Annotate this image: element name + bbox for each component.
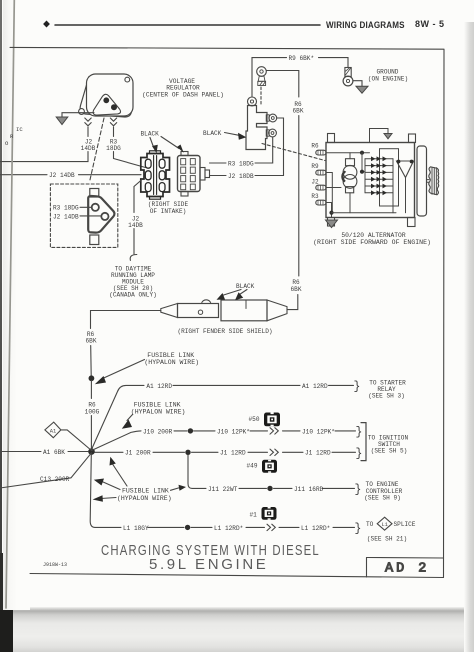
svg-text:GROUND: GROUND <box>377 69 399 76</box>
dashed attachment eyelet to block <box>260 87 262 104</box>
grommet icon #1 <box>250 507 277 520</box>
connector face view triangle with terminals <box>88 189 114 245</box>
wire J2 18DB connector to stud block <box>210 118 284 176</box>
internal bus from R6 pin <box>326 152 370 154</box>
svg-text:(CENTER OF DASH PANEL): (CENTER OF DASH PANEL) <box>142 91 224 98</box>
label (SEE SH 21) <box>367 536 407 543</box>
svg-text:J2 18DB: J2 18DB <box>228 173 254 180</box>
black connector C1 (right side of intake) <box>141 151 170 199</box>
svg-text:(SEE SH 21): (SEE SH 21) <box>367 536 407 543</box>
arrow fusible link to vertical (upper) <box>94 479 120 490</box>
label J2 14DB (regulator pin) <box>81 139 96 153</box>
svg-text:J2: J2 <box>311 179 319 186</box>
wire J2 14DB from page edge to connector <box>0 174 141 176</box>
wire R6 6BK from left cylinder <box>91 311 161 329</box>
svg-text:#1: #1 <box>250 512 258 519</box>
svg-text:BLACK: BLACK <box>141 131 160 138</box>
wire J11 row <box>239 487 355 489</box>
voltage regulator triangle connector <box>93 94 120 115</box>
wire J1 200R <box>95 451 356 453</box>
svg-text:R6: R6 <box>292 279 300 286</box>
dashed box around connector face view <box>50 184 117 247</box>
svg-text:R6: R6 <box>311 142 319 149</box>
label GROUND (ON ENGINE) <box>368 69 408 83</box>
svg-text:(SEE SH 3): (SEE SH 3) <box>368 393 405 400</box>
rectifier diode bridge <box>365 156 393 212</box>
rotor field winding <box>341 153 357 213</box>
svg-text:6BK: 6BK <box>291 286 302 293</box>
leader lines to face terminals <box>80 207 101 216</box>
junction dot <box>360 170 364 174</box>
label C13 200R <box>40 476 70 483</box>
svg-text:(ON ENGINE): (ON ENGINE) <box>368 76 408 83</box>
label 50/120 ALTERNATOR <box>313 232 431 246</box>
right page-edge shading <box>464 22 474 652</box>
svg-text:R3 18DG: R3 18DG <box>53 205 79 212</box>
label R3 18DG (regulator pin) <box>106 139 121 153</box>
connector end curl J10 <box>356 426 363 439</box>
svg-text:A1 12RD: A1 12RD <box>146 383 172 390</box>
internal wire to field <box>362 153 365 172</box>
svg-text:(RIGHT FENDER SIDE SHIELD): (RIGHT FENDER SIDE SHIELD) <box>177 328 272 335</box>
ring terminal upper on block <box>248 97 257 106</box>
labels J1 <box>125 450 331 457</box>
header: WIRING DIAGRAMS 8W - 5 <box>326 19 405 30</box>
label FUSIBLE LINK (middle) <box>131 401 186 415</box>
wire A1 12RD branch <box>92 385 354 449</box>
svg-text:BLACK: BLACK <box>203 130 222 137</box>
label R6 6BK (left column) <box>86 331 97 345</box>
label A1 12RD (left) <box>146 383 172 390</box>
wire junction down to L1 row <box>90 455 121 528</box>
wire R6 6BK from eyelet down <box>266 71 298 310</box>
wire R9 6BK to ground <box>252 58 348 97</box>
ground above alternator <box>384 134 392 139</box>
star junction node <box>88 448 95 455</box>
inline connector >> L1 <box>267 524 275 530</box>
grommet icon #49 <box>247 460 278 473</box>
ground stud on engine <box>343 68 353 86</box>
inline connector >> J1 <box>270 449 278 455</box>
fusible link cylinder right (fender shield) <box>221 300 287 321</box>
connector end curl J1 <box>356 448 363 461</box>
label J2 14DB (horizontal wire) <box>49 172 75 179</box>
wire from regulator to ground <box>62 113 94 118</box>
alternator pin R9 <box>316 170 326 175</box>
label BLACK for fender links <box>236 283 255 290</box>
internal wire from R3 pin <box>326 203 332 218</box>
svg-text:SPLICE: SPLICE <box>394 521 416 528</box>
ground below alternator <box>326 220 338 228</box>
internal wire from R9 pin <box>326 173 332 213</box>
left page bleed text fragments <box>5 126 23 147</box>
svg-text:}: } <box>354 381 361 394</box>
arrow BLACK to stud block <box>225 133 247 140</box>
svg-text:FUSIBLE LINK: FUSIBLE LINK <box>134 401 181 408</box>
wire to DRL module with end hook <box>130 229 137 261</box>
label A1 12RD (right) <box>302 383 328 390</box>
fusible link cylinder left (fender shield) <box>161 300 219 318</box>
svg-text:(RIGHT SIDE FORWARD OF ENGINE): (RIGHT SIDE FORWARD OF ENGINE) <box>313 239 431 246</box>
splice dot J11 <box>267 486 272 491</box>
label R6 6BK (lower) <box>291 279 302 293</box>
drawing number J918W-13 <box>43 562 67 568</box>
title block AD 2 box <box>367 558 444 578</box>
junction dot <box>360 151 364 155</box>
label (RIGHT FENDER SIDE SHIELD) <box>177 328 272 335</box>
svg-text:TO: TO <box>366 521 374 528</box>
svg-text:L1 12RD*: L1 12RD* <box>214 525 243 532</box>
shaft <box>427 180 430 183</box>
ground (on engine) <box>356 86 368 93</box>
svg-text:J2 14DB: J2 14DB <box>49 172 75 179</box>
svg-text:J1 12RD: J1 12RD <box>220 450 246 457</box>
connector end curl J11 <box>355 484 362 497</box>
label J2 18DB <box>228 173 254 180</box>
wire J10 200R <box>92 431 356 451</box>
label FUSIBLE LINK (upper) <box>144 352 199 366</box>
labels L1 <box>123 525 330 532</box>
svg-text:(CANADA ONLY): (CANADA ONLY) <box>109 291 157 298</box>
label R6 100G <box>85 402 100 416</box>
svg-text:AD 2: AD 2 <box>385 562 429 577</box>
label BLACK for connectors <box>141 131 160 138</box>
alternator pin R3 <box>316 200 326 205</box>
wire J1 branch down to J11 <box>188 455 206 488</box>
ring terminal right lower <box>266 129 276 137</box>
diagram border box bottom <box>30 574 444 578</box>
svg-text:A1 12RD: A1 12RD <box>302 383 328 390</box>
splice dot R6 <box>89 375 95 381</box>
wire R3 to connector <box>114 152 146 168</box>
wire-end chevrons pin J2 <box>85 118 91 126</box>
svg-text:#49: #49 <box>247 463 258 470</box>
svg-text:100G: 100G <box>85 408 100 415</box>
arrow to right cylinder <box>235 290 247 301</box>
wire A1 6BK from page edge <box>0 451 88 453</box>
svg-text:L1: L1 <box>382 522 388 528</box>
svg-text:(SEE SH 9): (SEE SH 9) <box>364 494 401 501</box>
wire R6 100G to star junction <box>90 381 92 450</box>
eyelet with stud to R9 wire <box>257 67 267 86</box>
labels J11 <box>208 486 324 493</box>
svg-text:#50: #50 <box>249 416 260 423</box>
svg-text:(HYPALON WIRE): (HYPALON WIRE) <box>144 359 199 366</box>
wire C13 200R <box>0 453 92 488</box>
svg-text:A1: A1 <box>50 429 56 435</box>
wire diamond to junction <box>61 430 92 451</box>
svg-text:R9: R9 <box>311 163 319 170</box>
stud junction block body <box>246 106 267 150</box>
label R3 18DG <box>228 160 254 167</box>
splice dot J1 <box>185 450 190 455</box>
internal regulator triangle <box>397 160 414 213</box>
arrow fusible link to J11 corner <box>171 485 187 491</box>
svg-text:}: } <box>356 448 363 461</box>
svg-text:O: O <box>5 140 9 147</box>
svg-text:IC: IC <box>16 126 23 133</box>
svg-text:(HYPALON WIRE): (HYPALON WIRE) <box>131 408 186 415</box>
svg-text:}: } <box>355 523 362 536</box>
label FUSIBLE LINK (lower) <box>117 488 172 502</box>
svg-text:J10 12PK*: J10 12PK* <box>217 428 250 435</box>
wire J2 14DB from regulator <box>87 127 89 137</box>
label TO IGNITION SWITCH <box>368 435 409 455</box>
junction dot <box>329 211 333 215</box>
svg-text:J10 200R: J10 200R <box>143 428 173 435</box>
svg-text:J918W-13: J918W-13 <box>43 562 67 568</box>
alternator front housing <box>417 146 427 216</box>
label A1 6BK <box>43 449 65 456</box>
alternator U2 case <box>326 134 416 227</box>
arrow fusible link to splice <box>95 360 145 385</box>
wire L1 row <box>148 526 355 528</box>
group bracket to ignition switch <box>361 423 366 461</box>
wire alternator top to ground <box>370 129 389 143</box>
svg-text:L1 12RD*: L1 12RD* <box>301 525 330 532</box>
svg-text:}: } <box>355 484 362 497</box>
pin label J2 <box>311 179 319 186</box>
internal wire from J2 pin <box>326 187 341 189</box>
svg-text:(SEE SH 5): (SEE SH 5) <box>371 448 408 455</box>
pin label R6 <box>311 142 319 149</box>
svg-text:J11 16RD: J11 16RD <box>294 486 324 493</box>
internal bottom bus <box>332 212 397 214</box>
voltage regulator U1 body <box>79 74 133 117</box>
label R9 6BK* <box>289 55 315 62</box>
svg-text:6BK: 6BK <box>293 108 304 115</box>
grommet icon #50 <box>249 413 281 427</box>
diagram border box right <box>443 50 446 578</box>
wire R3 18DG from regulator <box>113 127 115 137</box>
arrow fusible link to vertical (lower) <box>93 495 116 502</box>
scan page-edge vertical line (skewed) <box>6 0 14 608</box>
svg-text:R3 18DG: R3 18DG <box>228 160 254 167</box>
ground (dash panel) <box>56 117 68 125</box>
svg-text:J11 22WT: J11 22WT <box>208 486 238 493</box>
alternator pin J2 <box>316 185 326 190</box>
svg-text:BLACK: BLACK <box>236 283 255 290</box>
pin label R9 <box>311 163 319 170</box>
svg-text:18DG: 18DG <box>106 145 121 152</box>
svg-text:R9 6BK*: R9 6BK* <box>289 55 315 62</box>
SVGCONTENT <box>0 74 224 247</box>
pin label R3 <box>311 193 319 200</box>
label BLACK for stud block <box>203 130 222 137</box>
left page-edge shading <box>3 0 30 610</box>
connector end curl A1 <box>354 381 361 394</box>
dashed mating line regulator to connector face <box>90 118 105 182</box>
arrow to black connector <box>150 138 158 154</box>
splice symbol A1 diamond <box>45 422 61 438</box>
scan gray band at bottom of page <box>0 607 474 652</box>
svg-text:J10 12PK*: J10 12PK* <box>302 428 335 435</box>
svg-text:A1 6BK: A1 6BK <box>43 449 65 456</box>
label TO STARTER RELAY <box>368 379 406 399</box>
diagram border box top <box>10 47 444 49</box>
header rule line <box>55 24 320 26</box>
svg-text:J1 12RD: J1 12RD <box>305 450 331 457</box>
svg-text:C13 200R: C13 200R <box>40 476 70 483</box>
svg-text:J2 14DB: J2 14DB <box>53 213 79 220</box>
splice dot J10 <box>188 428 193 433</box>
ring terminal right upper <box>266 114 276 122</box>
svg-text:14DB: 14DB <box>128 222 143 229</box>
arrow to white connector <box>161 137 184 153</box>
dashed attachment block to alternator <box>262 144 325 161</box>
big title at bottom <box>101 542 320 559</box>
arrow fusible link up to J1 wire <box>110 457 128 486</box>
svg-text:J1 200R: J1 200R <box>125 450 151 457</box>
label R6 6BK (upper) <box>293 101 304 115</box>
label TO DAYTIME RUNNING LAMP MODULE <box>109 265 157 298</box>
label (RIGHT SIDE OF INTAKE) <box>148 201 189 215</box>
svg-text:L1 18GY: L1 18GY <box>123 525 149 532</box>
wire-end chevrons pin R3 <box>110 118 116 126</box>
svg-text:FUSIBLE LINK: FUSIBLE LINK <box>122 488 169 495</box>
arrow fusible link to J10 wire <box>122 415 133 429</box>
pulley <box>429 167 439 195</box>
labels J10 <box>143 428 335 435</box>
label J2 14DB (DRL branch) <box>128 216 143 229</box>
wire R6 down to splice dot <box>90 346 93 376</box>
label TO ENGINE CONTROLLER <box>364 481 402 501</box>
connector end curl L1 <box>355 523 362 536</box>
arrow to left cylinder <box>217 290 242 300</box>
svg-text:}: } <box>356 426 363 439</box>
alternator pin R6 <box>316 150 326 155</box>
svg-text:14DB: 14DB <box>81 145 96 152</box>
label TO L1 SPLICE <box>366 521 416 528</box>
inline connector >> J10 <box>270 428 278 434</box>
svg-text:FUSIBLE LINK: FUSIBLE LINK <box>147 352 194 359</box>
header diamond bullet <box>43 21 50 28</box>
splice diamond L1 <box>377 517 392 530</box>
svg-text:R3: R3 <box>311 193 319 200</box>
svg-text:OF INTAKE): OF INTAKE) <box>150 208 187 215</box>
svg-text:(RIGHT SIDE: (RIGHT SIDE <box>148 201 189 208</box>
splice dot L1 <box>185 525 190 530</box>
svg-text:6BK: 6BK <box>86 338 97 345</box>
wire eyelet to ground symbol <box>353 81 362 86</box>
stator winding box <box>380 149 399 206</box>
scan dark left edge bar <box>0 0 2 612</box>
svg-text:(HYPALON WIRE): (HYPALON WIRE) <box>117 495 172 502</box>
wire J2 14DB branch down to DRL module <box>134 180 142 213</box>
svg-text:R: R <box>10 133 14 140</box>
voltage regulator label <box>142 78 224 98</box>
labels inside dashed box <box>53 205 79 221</box>
wire R3 18DG connector to stud block <box>210 138 273 164</box>
wire J2 to left page edge <box>0 152 88 162</box>
white connector C2 (right side of intake) <box>178 152 210 197</box>
